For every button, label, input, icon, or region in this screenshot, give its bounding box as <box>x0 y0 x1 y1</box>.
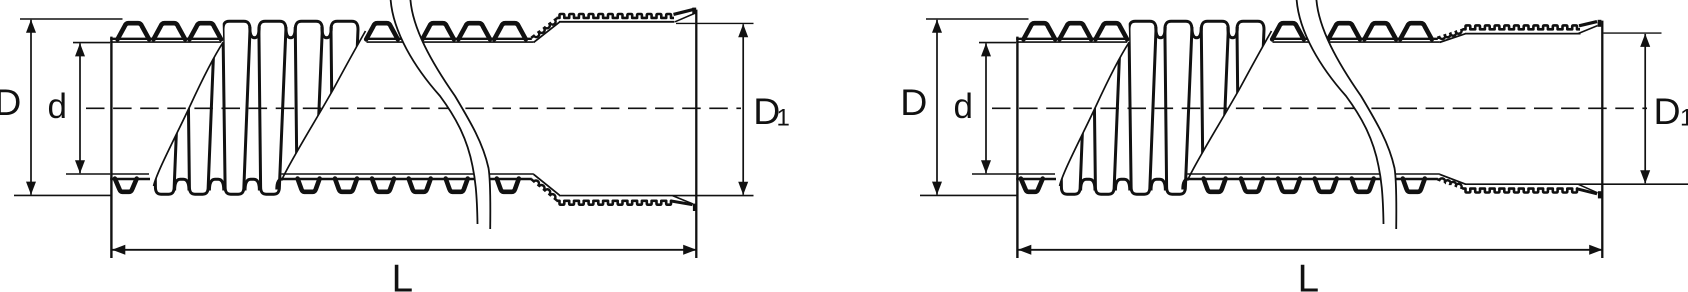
top mouth flare <box>1579 22 1597 26</box>
top mouth flare <box>674 9 694 14</box>
bottom socket outer wall with ribs <box>1463 189 1579 193</box>
bottom inner-wall line (thick), left stub <box>110 178 150 180</box>
corrugation ring 5 (outside view) <box>295 21 322 194</box>
bottom corrugation trapezoid (section) at x=125.8 <box>1021 179 1043 192</box>
top inner-wall line (thick), right section <box>1272 38 1438 40</box>
bottom inner-wall line (thin), right section <box>1188 173 1440 175</box>
top corrugation trapezoid (section) at x=438.1 <box>1328 23 1360 39</box>
arrowhead D top <box>26 20 36 33</box>
bottom mouth flare <box>671 201 693 205</box>
bottom socket inner wall / D1 bottom extension line <box>1465 183 1688 185</box>
top corrugation trapezoid (section) at x=205.3 <box>1096 23 1128 39</box>
svg-text:D: D <box>0 81 21 123</box>
top corrugation trapezoid (section) at x=169.3 <box>1060 23 1092 39</box>
top corrugation trapezoid (section) at x=382.0 <box>1272 23 1304 39</box>
white mask right of section boundary S2 <box>1188 6 1467 220</box>
top corrugation valley at x=290.6 <box>1192 27 1201 38</box>
top corrugation trapezoid (section) at x=133.3 <box>118 23 150 39</box>
top corrugation trapezoid (section) at x=133.3 <box>1024 23 1056 39</box>
top corrugation valley at x=254.5 <box>250 27 259 38</box>
bottom transition inner <box>534 174 560 195</box>
bottom inner-wall line (thin), left stub <box>110 173 149 175</box>
top corrugation trapezoid (section) at x=510.0 <box>494 23 526 39</box>
bottom inner-wall line (thick), left stub <box>1016 178 1056 180</box>
extension line for d (top) <box>73 42 110 44</box>
white mask left of section boundary S1 <box>108 6 223 186</box>
arrowhead L left <box>1018 245 1031 255</box>
arrowhead d bottom <box>981 160 991 173</box>
section boundary curve S1 <box>154 42 224 186</box>
corrugation ring 6 (outside view) <box>1237 21 1264 194</box>
white mask left of section boundary S1 <box>1014 6 1129 186</box>
pipe mouth edge / L extension line <box>1601 21 1603 258</box>
top corrugation trapezoid (section) at x=382.0 <box>366 23 398 39</box>
corrugation ring 2 (outside view) <box>1094 21 1121 194</box>
svg-text:1: 1 <box>1680 105 1688 132</box>
arrowhead d top <box>981 43 991 56</box>
arrowhead D1 bottom <box>1640 170 1650 183</box>
top mouth chamfer line <box>1578 26 1598 34</box>
dimension line d <box>985 43 987 173</box>
top corrugation trapezoid (section) at x=510.0 <box>1400 23 1432 39</box>
bottom valley rise into section boundary <box>1183 179 1188 190</box>
arrowhead D1 top <box>738 24 748 37</box>
bottom corrugation trapezoid (section) at x=125.8 <box>115 179 137 192</box>
svg-text:L: L <box>1298 258 1319 292</box>
pipe mouth edge / L extension line <box>695 10 697 258</box>
dimension line d <box>79 43 81 173</box>
top inner-wall line (thick), right section <box>366 38 532 40</box>
dimension line D1 <box>742 24 744 195</box>
top inner-wall line (thin), left section <box>110 41 221 43</box>
wavy break line left <box>1297 0 1384 224</box>
svg-text:1: 1 <box>777 105 790 132</box>
bottom corrugation trapezoid (section) at x=419.7 <box>409 179 431 192</box>
svg-text:D: D <box>900 81 927 123</box>
top transition inner <box>534 22 560 42</box>
bottom corrugation trapezoid (section) at x=456.7 <box>1352 179 1374 192</box>
top corrugation valley at x=326.6 <box>1228 27 1237 38</box>
bottom flare end tick <box>1598 191 1602 198</box>
corrugation ring 5 (outside view) <box>1201 21 1228 194</box>
arrowhead D1 top <box>1640 34 1650 47</box>
corrugation ring 1 (outside view) <box>154 21 181 194</box>
arrowhead L left <box>112 245 125 255</box>
bottom corrugation valley at x=216.6 <box>209 179 223 190</box>
arrowhead d top <box>75 43 85 56</box>
bottom corrugation trapezoid (section) at x=308.6 <box>298 179 320 192</box>
bottom corrugation valley at x=181.8 <box>175 179 189 190</box>
top socket outer wall with ribs <box>557 14 675 18</box>
bottom flare end tick <box>693 204 697 211</box>
top inner-wall line (thin), left section <box>1016 41 1127 43</box>
arrowhead d bottom <box>75 160 85 173</box>
bottom corrugation trapezoid (section) at x=383.0 <box>372 179 394 192</box>
extension line for D (bottom) <box>920 194 1017 196</box>
arrowhead L right <box>1589 245 1602 255</box>
top transition outer (bumpy) <box>531 18 557 38</box>
bottom socket inner wall / D1 bottom extension line <box>559 195 754 197</box>
bottom inner-wall line (thick), right section <box>1188 178 1438 180</box>
bottom valley rise into section boundary <box>277 179 282 190</box>
corrugation ring 6 (outside view) <box>331 21 358 194</box>
arrowhead D bottom <box>26 182 36 195</box>
extension line for D1 (top) <box>676 22 754 24</box>
bottom corrugation trapezoid (section) at x=308.6 <box>1204 179 1226 192</box>
top corrugation trapezoid (section) at x=474.2 <box>458 23 490 39</box>
top corrugation valley at x=290.6 <box>286 27 295 38</box>
corrugation ring 2 (outside view) <box>188 21 215 194</box>
svg-text:d: d <box>48 87 67 126</box>
dashed centerline <box>86 107 741 109</box>
top corrugation trapezoid (section) at x=474.2 <box>1364 23 1396 39</box>
bottom corrugation valley at x=216.6 <box>1115 179 1129 190</box>
bottom inner-wall line (thick), right section <box>282 178 532 180</box>
pipe left end edge / L extension line <box>1016 37 1018 258</box>
corrugation ring 1 (outside view) <box>1060 21 1087 194</box>
bottom corrugation trapezoid (section) at x=383.0 <box>1278 179 1300 192</box>
extension line for d (bottom) <box>66 173 110 175</box>
corrugation ring 3 (outside view) <box>223 21 250 194</box>
top corrugation valley at x=326.6 <box>322 27 331 38</box>
extension line for d (bottom) <box>972 173 1016 175</box>
pipe left end edge / L extension line <box>110 37 112 258</box>
section boundary curve S2 <box>282 31 366 181</box>
dimension line L <box>113 249 697 251</box>
bottom corrugation trapezoid (section) at x=346.0 <box>335 179 357 192</box>
arrowhead D bottom <box>932 182 942 195</box>
section boundary curve S2 <box>1188 31 1272 181</box>
top socket inner wall line <box>559 21 675 23</box>
dimension line D1 <box>1644 34 1646 183</box>
corrugation ring 4 (outside view) <box>1165 21 1192 194</box>
extension line for D1 (top) <box>1604 32 1662 34</box>
dashed centerline <box>992 107 1647 109</box>
top socket inner wall line <box>1465 33 1581 35</box>
white band of wavy break <box>1297 0 1397 229</box>
bottom corrugation valley at x=181.8 <box>1081 179 1095 190</box>
top corrugation valley at x=254.5 <box>1156 27 1165 38</box>
corrugation ring 4 (outside view) <box>259 21 286 194</box>
top inner-wall line (thick), left section <box>110 38 220 40</box>
extension line for D (bottom) <box>14 194 111 196</box>
bottom mouth flare <box>1577 189 1598 194</box>
bottom transition outer (bumpy) <box>531 179 557 200</box>
bottom transition outer (bumpy) <box>1437 178 1463 188</box>
bottom corrugation trapezoid (section) at x=507.8 <box>497 179 519 192</box>
bottom inner-wall line (thin), left stub <box>1016 173 1055 175</box>
bottom transition inner <box>1440 174 1466 184</box>
arrowhead D top <box>932 20 942 33</box>
top transition inner <box>1440 34 1466 43</box>
dimension line D <box>30 20 32 195</box>
white mask right of section boundary S2 <box>282 6 561 220</box>
section boundary curve S1 <box>1060 42 1130 186</box>
bottom socket outer wall with ribs <box>557 201 673 205</box>
bottom mouth chamfer line <box>673 196 694 204</box>
bottom corrugation valley at x=252.2 <box>1151 179 1165 190</box>
wavy break line left <box>391 0 478 224</box>
svg-text:D: D <box>1654 90 1681 132</box>
top flare end tick <box>692 8 696 15</box>
arrowhead D1 bottom <box>738 182 748 195</box>
extension line for D (top) <box>926 18 1029 20</box>
top mouth chamfer line <box>675 14 694 22</box>
white band of wavy break <box>391 0 491 229</box>
extension line for d (top) <box>979 42 1016 44</box>
bottom corrugation trapezoid (section) at x=507.8 <box>1403 179 1425 192</box>
svg-text:L: L <box>392 258 413 292</box>
top inner-wall line (thick), left section <box>1016 38 1126 40</box>
bottom inner-wall line (thin), right section <box>282 173 534 175</box>
top corrugation trapezoid (section) at x=205.3 <box>190 23 222 39</box>
top socket outer wall with ribs <box>1463 25 1581 29</box>
arrowhead L right <box>683 245 696 255</box>
top inner-wall line (thin), right section <box>1273 41 1440 43</box>
svg-text:d: d <box>954 87 973 126</box>
bottom corrugation trapezoid (section) at x=346.0 <box>1241 179 1263 192</box>
top corrugation trapezoid (section) at x=438.1 <box>422 23 454 39</box>
dimension line D <box>936 20 938 195</box>
bottom corrugation trapezoid (section) at x=456.7 <box>446 179 468 192</box>
extension line for D (top) <box>20 18 123 20</box>
dimension line L <box>1019 249 1603 251</box>
corrugation ring 3 (outside view) <box>1129 21 1156 194</box>
bottom mouth chamfer line <box>1578 184 1598 193</box>
wavy break line right <box>410 0 490 229</box>
wavy break line right <box>1316 0 1396 229</box>
bottom corrugation valley at x=252.2 <box>245 179 259 190</box>
top flare end tick <box>1598 20 1602 27</box>
top transition outer (bumpy) <box>1437 30 1463 39</box>
top inner-wall line (thin), right section <box>367 41 534 43</box>
top corrugation trapezoid (section) at x=169.3 <box>154 23 186 39</box>
bottom corrugation trapezoid (section) at x=419.7 <box>1315 179 1337 192</box>
